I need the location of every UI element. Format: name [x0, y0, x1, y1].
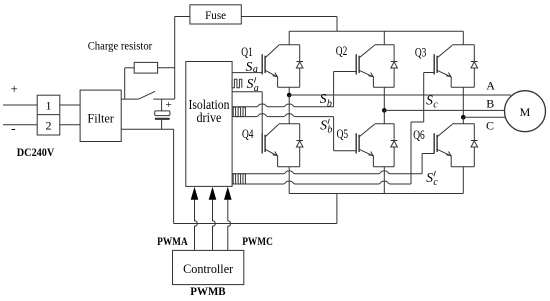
label PWMC — [242, 236, 273, 248]
svg-text:Q2: Q2 — [336, 44, 348, 58]
wire block to filter (upper) — [60, 104, 80, 106]
wire to fuse — [175, 16, 190, 18]
label Q4 — [242, 127, 254, 141]
svg-text:S: S — [426, 93, 433, 108]
svg-text:A: A — [486, 79, 495, 93]
svg-text:b: b — [327, 99, 332, 110]
wire DC+ rail — [289, 30, 463, 32]
svg-text:+: + — [11, 81, 18, 96]
svg-text:B: B — [486, 96, 494, 110]
node A junction dot — [287, 93, 292, 98]
waveform glyph on Sa' line — [232, 79, 242, 88]
transistor Q2 (IGBT with diode) — [356, 45, 397, 88]
connector X1 terminal block — [37, 95, 60, 135]
wire filter negative output — [121, 128, 173, 130]
svg-text:2: 2 — [46, 118, 52, 132]
label B — [486, 96, 494, 110]
svg-text:PWMA: PWMA — [157, 236, 188, 248]
label Q6 — [413, 128, 425, 142]
wire Q6 emitter stub — [462, 167, 464, 194]
svg-text:a: a — [253, 64, 258, 75]
svg-text:Fuse: Fuse — [205, 8, 226, 22]
svg-text:drive: drive — [196, 110, 221, 125]
label Sa' — [247, 76, 259, 94]
fuse F1 — [190, 5, 241, 24]
svg-text:C: C — [486, 118, 494, 132]
label Sa — [246, 59, 258, 75]
transistor Q4 (IGBT with diode) — [262, 124, 303, 167]
wire DC+ input — [3, 104, 37, 106]
label Sb — [320, 91, 332, 109]
wire phase A line — [289, 94, 511, 96]
svg-text:Q3: Q3 — [415, 45, 427, 59]
wire PWMA signal with arrow — [191, 187, 199, 251]
node C junction dot — [461, 115, 466, 120]
block Controller — [173, 250, 244, 284]
svg-text:+: + — [166, 99, 172, 111]
svg-text:S: S — [246, 59, 253, 74]
node B junction dot — [382, 108, 387, 113]
transistor Q5 (IGBT with diode) — [356, 124, 397, 167]
block Isolation drive — [186, 62, 232, 187]
wire filter output to switch — [121, 98, 139, 100]
label PWMA — [157, 236, 188, 248]
label PWMB — [190, 286, 226, 298]
label DC240V — [17, 145, 55, 159]
switch S1 blade — [139, 91, 156, 99]
wire negative vertical — [173, 129, 175, 223]
svg-text:PWMC: PWMC — [242, 236, 273, 248]
svg-text:S: S — [247, 76, 254, 91]
node - (DC negative terminal label) — [11, 122, 16, 137]
svg-text:-: - — [11, 122, 16, 137]
label Sc — [426, 93, 438, 111]
wire fuse to rail — [241, 17, 337, 32]
wire Sc gate line to Q3 — [232, 73, 434, 185]
svg-text:Controller: Controller — [183, 261, 234, 276]
wire bus riser — [336, 194, 338, 224]
wire PWMC signal with arrow — [224, 187, 232, 251]
transistor Q3 (IGBT with diode) — [434, 45, 477, 88]
label Sb' — [320, 118, 332, 136]
resistor R1 charge resistor — [134, 62, 157, 73]
wire Sc' gate line to Q6 — [232, 154, 434, 174]
svg-text:1: 1 — [46, 99, 52, 113]
svg-text:c: c — [433, 100, 438, 111]
wire DC- input — [3, 124, 37, 126]
capacitor C1 electrolytic — [155, 99, 170, 129]
wire block to filter (lower) — [60, 124, 80, 126]
wire charge resistor to vertical — [158, 67, 175, 69]
label Q3 — [415, 45, 427, 59]
svg-text:S: S — [320, 91, 327, 106]
wire Q3 collector stub — [462, 31, 464, 45]
wire Sa gate line to Q1 — [232, 72, 262, 74]
wire Sb gate line to Q2 — [232, 72, 356, 107]
wire phase C line — [463, 116, 506, 118]
svg-text:b: b — [327, 125, 332, 136]
svg-text:Q4: Q4 — [242, 127, 254, 141]
wire phase B line — [384, 109, 505, 111]
wire Q4 collector stub — [288, 95, 290, 124]
label C — [486, 118, 494, 132]
svg-text:Charge resistor: Charge resistor — [88, 41, 153, 53]
wire Q2 collector stub — [383, 31, 385, 45]
svg-text:Q1: Q1 — [241, 45, 253, 59]
label Charge resistor — [88, 41, 153, 53]
waveform glyph on Sb' line — [233, 107, 245, 116]
label Q1 — [241, 45, 253, 59]
transistor Q1 (IGBT with diode) — [262, 45, 303, 88]
wire Q1 emitter to node A — [288, 87, 290, 95]
wire PWMB signal with arrow — [209, 187, 217, 251]
label A — [486, 79, 495, 93]
block Filter — [80, 90, 121, 141]
waveform glyph on Sc line — [233, 174, 245, 184]
wire switch to node — [153, 98, 175, 100]
wire Q5 collector stub — [383, 110, 385, 123]
label Q5 — [337, 127, 349, 141]
svg-text:Filter: Filter — [87, 110, 114, 125]
wire Q3 emitter to node C — [462, 87, 464, 117]
wire Sa' gate line to Q4 — [232, 92, 262, 134]
label Sc' — [426, 170, 438, 188]
wire Q1 collector stub — [288, 31, 290, 45]
svg-text:S: S — [320, 118, 327, 133]
wire Sb' gate line to Q5 — [232, 114, 356, 151]
transistor Q6 (IGBT with diode) — [434, 124, 477, 167]
svg-text:DC240V: DC240V — [17, 145, 55, 159]
wire emitter bus — [289, 193, 463, 195]
node + (DC positive terminal label) — [11, 81, 18, 96]
wire Q5 emitter stub — [383, 167, 385, 194]
motor M — [505, 91, 546, 132]
svg-text:Q6: Q6 — [413, 128, 425, 142]
label + (capacitor polarity) — [166, 99, 172, 111]
svg-text:a: a — [254, 83, 259, 94]
wire bottom bus — [174, 223, 337, 225]
svg-text:PWMB: PWMB — [190, 286, 226, 298]
svg-text:Q5: Q5 — [337, 127, 349, 141]
svg-text:c: c — [433, 177, 438, 188]
svg-text:M: M — [520, 105, 531, 119]
wire Q2 emitter to node B — [383, 87, 385, 110]
svg-text:S: S — [426, 170, 433, 185]
wire tee up to charge resistor — [125, 68, 135, 99]
wire vertical to fuse — [174, 17, 176, 100]
label Q2 — [336, 44, 348, 58]
wire Q6 collector stub — [462, 117, 464, 123]
wire Q4 emitter stub — [288, 167, 290, 194]
